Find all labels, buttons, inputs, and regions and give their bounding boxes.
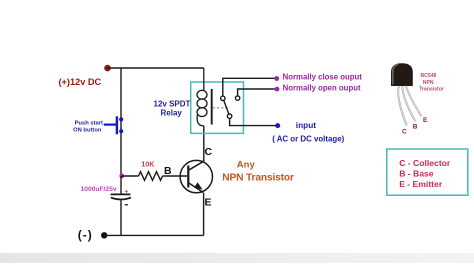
svg-text:C: C — [402, 129, 407, 136]
node: negative supply terminal — [101, 232, 107, 238]
svg-text:Transistor: Transistor — [419, 87, 444, 93]
svg-text:( AC or DC voltage): ( AC or DC voltage) — [272, 134, 344, 143]
svg-text:10K: 10K — [141, 159, 155, 168]
label 12v SPDT Relay — [154, 99, 191, 117]
svg-text:+: + — [125, 189, 129, 196]
label input ( AC or DC voltage) — [272, 120, 344, 143]
svg-text:12v SPDT: 12v SPDT — [154, 99, 191, 108]
wire: relay coil bottom to transistor collector — [203, 126, 205, 162]
wire: junction to resistor — [122, 175, 139, 177]
wire: NO contact to normally-open output — [238, 89, 275, 96]
wire: emitter to ground rail — [203, 193, 205, 235]
relay core — [211, 89, 213, 125]
node: +12V supply terminal — [104, 65, 111, 72]
node: normally open output terminal — [275, 87, 280, 92]
transistor package TO-92 (BC548) — [391, 63, 422, 125]
svg-text:Normally open ouput: Normally open ouput — [283, 84, 361, 93]
relay NC contact — [221, 96, 225, 100]
svg-text:Normally close ouput: Normally close ouput — [283, 73, 363, 82]
svg-text:C - Collector: C - Collector — [399, 158, 451, 168]
push button S1 — [104, 116, 123, 134]
relay armature link (dashed) — [213, 107, 229, 109]
wire: bottom ground rail — [104, 234, 203, 236]
resistor R1 10K — [139, 172, 163, 181]
node: input terminal — [275, 123, 280, 128]
label Push start ON button — [73, 120, 103, 133]
svg-text:NPN: NPN — [423, 80, 434, 86]
svg-text:B - Base: B - Base — [399, 169, 434, 179]
svg-text:BC548: BC548 — [421, 73, 437, 79]
relay NO contact — [235, 96, 239, 100]
svg-text:NPN Transistor: NPN Transistor — [222, 173, 294, 184]
relay K1 outline box — [191, 82, 244, 133]
svg-text:(-): (-) — [78, 228, 93, 242]
wire: resistor to transistor base — [163, 175, 188, 177]
label BC548 NPN Transistor — [419, 73, 444, 93]
legend box — [387, 149, 468, 195]
node: normally close output terminal — [274, 76, 279, 81]
svg-text:ON button: ON button — [73, 127, 102, 133]
wire: common contact to input terminal — [230, 118, 276, 125]
transistor Q1 (any NPN) — [180, 160, 212, 192]
svg-text:input: input — [296, 120, 317, 130]
svg-text:Push start: Push start — [75, 120, 103, 126]
svg-text:Relay: Relay — [161, 108, 183, 117]
relay common contact — [227, 114, 231, 118]
wire: top rail from +12V terminal to relay coil — [108, 67, 204, 69]
node: junction of capacitor and resistor — [119, 174, 124, 179]
relay armature — [224, 100, 229, 114]
svg-text:B: B — [164, 165, 172, 177]
capacitor C1 1000uF electrolytic — [111, 176, 132, 235]
svg-text:1000uF/25v: 1000uF/25v — [81, 186, 117, 193]
svg-text:E: E — [205, 197, 212, 209]
label Any NPN Transistor — [222, 160, 294, 184]
wire: branch down through push button to junction — [120, 68, 122, 176]
svg-text:(+)12v DC: (+)12v DC — [59, 77, 102, 87]
svg-text:C: C — [205, 146, 213, 158]
svg-text:Any: Any — [237, 160, 256, 171]
wire: NC contact to normally-close output — [223, 78, 275, 96]
svg-text:E: E — [423, 117, 428, 124]
svg-text:E - Emitter: E - Emitter — [399, 179, 443, 189]
relay coil L1 — [197, 68, 207, 126]
svg-text:B: B — [413, 123, 418, 130]
